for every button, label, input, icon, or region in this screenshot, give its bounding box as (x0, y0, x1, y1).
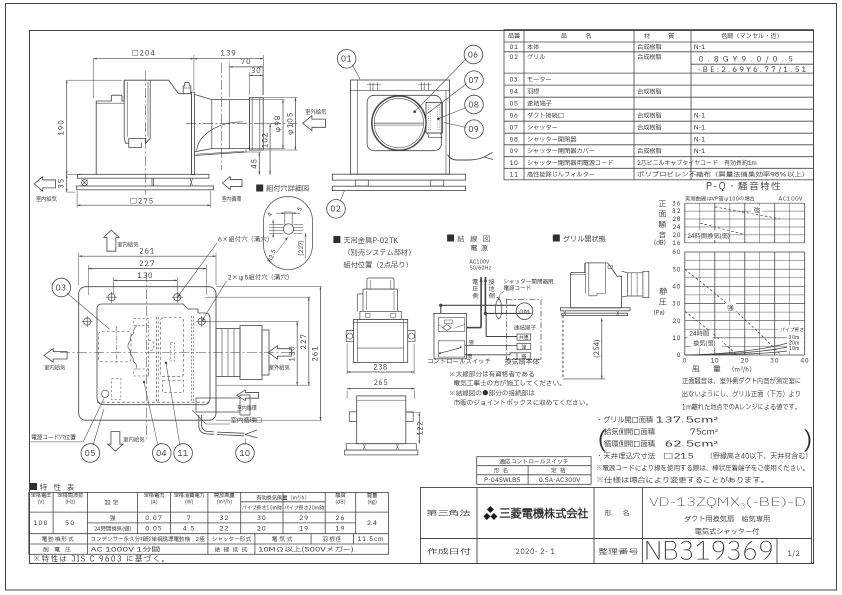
balloon 07 (465, 71, 484, 90)
svg-text:コントロールスイッチ: コントロールスイッチ (427, 356, 491, 366)
svg-text:GM: GM (519, 307, 530, 317)
svg-text:合成樹脂: 合成樹脂 (637, 123, 662, 133)
wiring terminal boxes (517, 334, 531, 340)
grill open bottom line (563, 378, 605, 380)
pq strong label (725, 303, 736, 312)
side view vertical centerline (144, 71, 146, 195)
svg-text:N-1: N-1 (694, 146, 705, 156)
svg-text:04: 04 (510, 86, 519, 96)
wiring cord loop ellipse (495, 299, 501, 318)
svg-text:10: 10 (239, 448, 250, 460)
svg-text:1/2: 1/2 (788, 549, 801, 559)
svg-text:30: 30 (769, 357, 779, 366)
grill open ceiling plate upper (561, 308, 630, 311)
svg-text:電気工事士の方が施工してください。: 電気工事士の方が施工してください。 (454, 379, 566, 389)
svg-text:(Pa): (Pa) (654, 309, 665, 318)
svg-text:(dB): (dB) (335, 498, 346, 506)
svg-text:102: 102 (260, 132, 271, 148)
bracket dim 238 (346, 344, 348, 375)
svg-text:AC100V: AC100V (778, 196, 803, 204)
svg-text:227: 227 (139, 259, 155, 270)
svg-text:(V): (V) (37, 498, 44, 506)
svg-text:30: 30 (671, 300, 681, 309)
svg-text:-BE:2.69Y6.77/1.51: -BE:2.69Y6.77/1.51 (697, 65, 808, 76)
svg-text:耐 電 圧: 耐 電 圧 (43, 546, 73, 554)
pq curve 24h (685, 311, 737, 355)
noise curve 24h (700, 223, 744, 234)
detail R2.5 label (277, 237, 288, 252)
svg-text:6×組付穴（溝穴）: 6×組付穴（溝穴） (218, 235, 273, 245)
dim 227 right (216, 384, 311, 386)
svg-text:10m: 10m (789, 345, 801, 353)
svg-text:電 源: 電 源 (470, 244, 489, 255)
front view grille plate (332, 186, 465, 190)
svg-text:室内給気: 室内給気 (117, 240, 139, 249)
noise chart grid (685, 203, 805, 243)
svg-text:(A): (A) (150, 498, 157, 506)
balloon 10 (236, 444, 255, 463)
svg-text:07: 07 (510, 123, 519, 133)
bracket base plates (346, 444, 416, 450)
wiring switch lower block (438, 341, 465, 357)
grill open body top edge (571, 274, 585, 276)
detail dim 4 (272, 220, 274, 239)
svg-text:07: 07 (468, 75, 479, 87)
bracket main box (354, 319, 408, 362)
wiring control switch box (434, 313, 467, 358)
svg-text:2×φ5組付穴（溝穴）: 2×φ5組付穴（溝穴） (228, 273, 294, 283)
svg-text:24時間換気(弱): 24時間換気(弱) (94, 525, 132, 534)
svg-text:実測曲線はVP管φ100の場合: 実測曲線はVP管φ100の場合 (685, 196, 755, 204)
top view cord hole circle (102, 390, 109, 397)
svg-text:室内循環: 室内循環 (222, 195, 242, 204)
svg-text:シャッター形式: シャッター形式 (212, 536, 252, 544)
svg-text:□215: □215 (663, 452, 694, 463)
svg-text:パイプ長さ10m時: パイプ長さ10m時 (242, 505, 282, 513)
noise curve strong (715, 207, 780, 219)
front view shutter opener box (426, 102, 442, 133)
side view body left top edge line (96, 102, 124, 104)
svg-text:組付穴詳細図: 組付穴詳細図 (266, 184, 309, 195)
svg-text:0.5A-AC300V: 0.5A-AC300V (539, 475, 580, 485)
svg-text:出ないようにし、グリル正面（下方）より: 出ないようにし、グリル正面（下方）より (682, 390, 801, 401)
top view fan scroll dashed (134, 319, 149, 326)
svg-text:30: 30 (251, 66, 262, 77)
side view body outline (96, 80, 191, 175)
top view left compartment dashed (99, 331, 131, 362)
pq curve strong (685, 270, 781, 356)
side view plate tick marks (151, 178, 153, 186)
dim 139 top (262, 55, 264, 95)
svg-text:09: 09 (510, 146, 519, 156)
grill open hanging grill dashed (561, 316, 563, 379)
svg-text:色調（マンセル・近）: 色調（マンセル・近） (721, 31, 783, 41)
svg-text:08: 08 (510, 134, 519, 144)
svg-text:01: 01 (510, 42, 519, 52)
svg-text:(W): (W) (185, 498, 194, 506)
grill open motor tower (584, 263, 586, 294)
svg-text:有効換気風量（m³/h）: 有効換気風量（m³/h） (256, 495, 309, 503)
svg-text:合成樹脂: 合成樹脂 (637, 86, 662, 96)
svg-text:(Hz): (Hz) (65, 498, 75, 506)
svg-text:□275: □275 (130, 197, 154, 208)
top view right compartment dashed (161, 318, 184, 377)
svg-text:品番: 品番 (508, 31, 521, 41)
svg-text:電気式: 電気式 (272, 535, 295, 544)
svg-text:(254): (254) (593, 340, 603, 358)
svg-text:室内循環口: 室内循環口 (231, 415, 263, 425)
dim 190 left (67, 79, 122, 81)
detail hatch plate lines (269, 224, 284, 226)
wiring switch upper block (438, 318, 465, 332)
svg-text:室外給気: 室外給気 (269, 364, 291, 373)
dim 204 top (92, 58, 94, 98)
svg-text:130: 130 (287, 345, 298, 361)
svg-text:16: 16 (672, 239, 681, 248)
detail slot (283, 224, 293, 234)
top view body outline (97, 304, 210, 405)
svg-text:室外給気: 室外給気 (305, 108, 327, 117)
svg-text:02: 02 (510, 52, 519, 62)
svg-text:(kg): (kg) (367, 498, 377, 506)
dim 130 right (202, 321, 299, 323)
svg-text:20: 20 (257, 524, 267, 534)
mounting hole detail oval (264, 196, 313, 269)
svg-text:シャッター開閉器カバー: シャッター開閉器カバー (527, 146, 595, 156)
svg-text:ポリプロピレン不織布（質量法捕集効率98％以上）: ポリプロピレン不織布（質量法捕集効率98％以上） (637, 169, 809, 179)
front view duct opening circle inner (374, 98, 423, 147)
wiring GM motor circle (516, 303, 533, 320)
bracket front view (367, 278, 394, 289)
svg-text:60: 60 (672, 248, 681, 257)
side view bell arc (197, 122, 243, 151)
svg-text:(m³/h): (m³/h) (217, 498, 233, 506)
svg-text:組付位置（2点吊り）: 組付位置（2点吊り） (343, 261, 412, 272)
front view ceiling plate (332, 174, 465, 180)
balloon 11 (174, 444, 193, 463)
dim 275 bottom (76, 191, 78, 208)
balloon 03 (52, 278, 71, 297)
svg-text:130: 130 (137, 271, 153, 282)
svg-text:シャッター: シャッター (527, 123, 558, 133)
side view ceiling plate upper (78, 174, 210, 178)
top view arrow circulation right (237, 390, 259, 401)
front view duct opening circle outer (372, 96, 426, 150)
svg-text:(227): (227) (297, 240, 306, 256)
balloon 09 (465, 120, 484, 139)
top view power cord (199, 415, 244, 436)
svg-text:10MΩ以上(500Vメガー): 10MΩ以上(500Vメガー) (258, 544, 354, 554)
side view motor tower (124, 80, 150, 143)
svg-text:電動機形式: 電動機形式 (42, 536, 75, 544)
svg-text:（m³/h）: （m³/h） (728, 365, 756, 375)
bracket mid taper (363, 289, 398, 311)
svg-text:11: 11 (178, 448, 189, 460)
svg-text:羽根径: 羽根径 (322, 536, 342, 544)
wiring switch to terminals (465, 344, 517, 346)
svg-text:01: 01 (341, 54, 352, 66)
svg-text:29: 29 (299, 513, 309, 523)
front view shutter line (374, 122, 423, 124)
svg-text:45: 45 (250, 158, 261, 169)
svg-text:75cm²: 75cm² (690, 428, 718, 439)
mitsubishi logo (483, 506, 497, 520)
pipe loss curve 20m (685, 343, 805, 356)
svg-text:35: 35 (57, 178, 68, 189)
top view vertical centerline (146, 272, 148, 440)
svg-text:2芯ビニルキャブタイヤコード 有効長約1m: 2芯ビニルキャブタイヤコード 有効長約1m (637, 158, 757, 168)
svg-text:32: 32 (219, 513, 229, 523)
svg-text:整理番号: 整理番号 (598, 547, 638, 558)
svg-text:強: 強 (754, 205, 761, 215)
svg-text:合成樹脂: 合成樹脂 (637, 52, 662, 62)
front view opener lower tab (428, 133, 442, 138)
side view pipe sections (228, 100, 230, 149)
svg-text:11.5cm: 11.5cm (357, 534, 384, 544)
svg-text:換気扇本体: 換気扇本体 (504, 357, 540, 368)
svg-text:50: 50 (65, 518, 75, 528)
top view small circulation port (163, 380, 184, 392)
dim 227 top (87, 265, 89, 295)
svg-text:N-1: N-1 (694, 42, 705, 52)
svg-text:パイプ長さ20m時: パイプ長さ20m時 (284, 505, 324, 513)
svg-text:122: 122 (415, 421, 425, 435)
svg-text:50/60Hz: 50/60Hz (469, 264, 492, 272)
svg-text:10: 10 (510, 158, 519, 168)
svg-text:03: 03 (56, 282, 67, 294)
svg-text:06: 06 (510, 111, 519, 121)
grill open section label (553, 235, 560, 242)
svg-text:φ98: φ98 (273, 115, 284, 134)
dim 130 top (113, 277, 115, 294)
bracket section label (333, 236, 340, 243)
svg-text:30: 30 (257, 513, 267, 523)
top view duct sections (216, 329, 240, 377)
balloon 04 (153, 444, 172, 463)
svg-text:モーター: モーター (527, 74, 552, 84)
dim 70 (228, 63, 230, 97)
wiring power lines (480, 277, 482, 328)
svg-text:強: 強 (521, 343, 526, 351)
svg-text:N-1: N-1 (694, 134, 705, 144)
bracket side view (357, 396, 406, 444)
svg-text:側: 側 (489, 292, 495, 301)
dim 30 (248, 72, 250, 95)
svg-text:市販のジョイントボックスに収めてください。: 市販のジョイントボックスに収めてください。 (454, 398, 592, 408)
svg-text:139: 139 (221, 49, 237, 60)
dim 261 top (78, 253, 80, 286)
svg-text:11: 11 (510, 169, 519, 179)
pipe loss curve 30m (685, 338, 805, 356)
svg-text:P-Q・騒音特性: P-Q・騒音特性 (706, 181, 783, 195)
grill open duct pipe (622, 271, 643, 297)
characteristics table label (30, 483, 37, 490)
bracket dim 122 (407, 412, 421, 414)
pipe loss curve 10m (685, 348, 805, 355)
svg-text:強: 強 (727, 303, 734, 313)
svg-text:（野縁高さ40以下、天井材含む）: （野縁高さ40以下、天井材含む） (706, 452, 812, 463)
front view connector rects (355, 180, 368, 186)
front view outer body (351, 80, 450, 174)
svg-text:品 名: 品 名 (561, 31, 598, 41)
svg-text:給気側開口面積: 給気側開口面積 (603, 428, 655, 439)
svg-text:24時間換気(弱): 24時間換気(弱) (687, 231, 730, 241)
svg-text:05: 05 (85, 448, 96, 460)
svg-text:238: 238 (373, 363, 387, 373)
svg-text:20: 20 (672, 317, 681, 326)
svg-text:天吊金具P-02TK: 天吊金具P-02TK (343, 236, 399, 247)
grill open ceiling plate lower (562, 313, 628, 315)
grill open plate screws (564, 311, 567, 316)
grill open dim 254 (601, 318, 603, 379)
svg-text:24時間: 24時間 (689, 329, 709, 339)
svg-text:室内給気: 室内給気 (123, 436, 145, 445)
svg-text:圧: 圧 (659, 297, 667, 309)
top view circulation duct lower (196, 398, 216, 412)
dim phi98 (249, 99, 285, 101)
svg-text:換気(弱): 換気(弱) (693, 339, 716, 349)
svg-text:コンデンサー永久分相形単相誘導電動機 2極: コンデンサー永久分相形単相誘導電動機 2極 (91, 535, 205, 544)
svg-text:材 質: 材 質 (644, 31, 681, 41)
top view arrow outdoor supply right (268, 346, 291, 360)
svg-text:電源コード: 電源コード (503, 285, 531, 293)
balloon 01 (337, 50, 356, 69)
svg-text:高性能除じんフィルター: 高性能除じんフィルター (527, 169, 595, 179)
svg-text:40: 40 (800, 357, 809, 366)
svg-text:NB319369: NB319369 (644, 533, 774, 571)
svg-text:室内給気: 室内給気 (36, 195, 58, 204)
svg-text:三菱電機株式会社: 三菱電機株式会社 (500, 507, 589, 524)
svg-text:03: 03 (510, 74, 519, 84)
svg-text:09: 09 (468, 124, 479, 136)
top view partition dashed (156, 317, 158, 402)
svg-text:AC 1000V 1分間: AC 1000V 1分間 (91, 544, 161, 554)
wiring section label (447, 235, 454, 242)
svg-text:0: 0 (683, 357, 687, 366)
svg-text:26: 26 (335, 513, 345, 523)
svg-text:227: 227 (299, 333, 310, 349)
svg-text:・天井埋込穴寸法: ・天井埋込穴寸法 (596, 452, 656, 463)
top view horizontal centerline (60, 352, 295, 354)
side view terminal bump (183, 82, 191, 93)
svg-text:シャッター開閉器用電源コード: シャッター開閉器用電源コード (527, 158, 614, 168)
dim 45 (246, 151, 261, 153)
svg-text:40: 40 (672, 282, 681, 291)
front view grille frame (367, 95, 441, 150)
svg-text:シャッター開閉器: シャッター開閉器 (527, 134, 577, 144)
detail dim 227 (305, 233, 307, 258)
front view cord (448, 155, 485, 161)
svg-text:10: 10 (672, 334, 681, 343)
svg-text:羽根: 羽根 (527, 86, 539, 96)
top view arrow indoor supply left (44, 349, 67, 363)
svg-text:19: 19 (335, 524, 345, 534)
svg-text:□204: □204 (132, 49, 156, 60)
grill open body (571, 263, 622, 308)
side view bell mouth (194, 94, 229, 151)
title block (421, 488, 812, 564)
wiring connections (439, 304, 442, 307)
grill open screw detail (608, 266, 613, 269)
side view pipe outer ring (249, 98, 263, 150)
pq 24h label (688, 330, 713, 339)
svg-text:0.07: 0.07 (145, 513, 163, 523)
side view duct lower fin (194, 149, 246, 155)
balloon 08 (465, 95, 484, 114)
svg-text:強: 強 (469, 339, 474, 347)
svg-text:強: 強 (109, 514, 115, 523)
svg-text:グリル開状態: グリル開状態 (563, 234, 606, 245)
svg-text:7: 7 (187, 513, 192, 523)
svg-text:0: 0 (677, 351, 681, 360)
svg-text:第三角法: 第三角法 (425, 509, 471, 520)
svg-text:形 名: 形 名 (605, 509, 632, 520)
balloon 06 (464, 45, 483, 64)
pipe length labels (778, 326, 804, 334)
svg-text:設定: 設定 (105, 499, 121, 508)
svg-text:本体: 本体 (527, 42, 539, 52)
svg-text:φ105: φ105 (286, 112, 297, 136)
svg-text:風 量: 風 量 (692, 365, 724, 376)
svg-text:※仕様は場合により変更することがあります。: ※仕様は場合により変更することがあります。 (596, 476, 769, 487)
wiring fan body box dash-dot (506, 299, 541, 359)
side view duct flange (192, 92, 195, 175)
parts table (504, 30, 814, 180)
svg-text:グリル: グリル (527, 52, 546, 62)
svg-text:100: 100 (33, 518, 48, 528)
dim 261 right (216, 286, 322, 288)
svg-text:08: 08 (468, 99, 479, 111)
side view plate screws (82, 180, 88, 186)
dim phi105 (263, 97, 297, 99)
top view inner dashed panel (97, 401, 209, 403)
svg-text:19: 19 (299, 524, 309, 534)
svg-text:合成樹脂: 合成樹脂 (637, 42, 662, 52)
front view top hanger slots (370, 82, 378, 90)
svg-text:側: 側 (472, 292, 478, 301)
bracket dim 265 (347, 388, 415, 390)
svg-text:適応コントロールスイッチ: 適応コントロールスイッチ (499, 457, 569, 466)
svg-text:ダクト接続口: ダクト接続口 (527, 111, 564, 121)
side view duct centerline vertical (220, 63, 222, 170)
svg-text:70: 70 (241, 57, 252, 68)
control switch table (477, 457, 591, 485)
svg-text:合成樹脂: 合成樹脂 (637, 111, 662, 121)
svg-text:循環側開口面積: 循環側開口面積 (604, 440, 655, 451)
svg-text:室内給気: 室内給気 (44, 364, 66, 373)
pq chart grid (685, 252, 805, 355)
svg-text:05: 05 (510, 99, 519, 109)
svg-text:正面騒音は、室外側ダクト内音が測定室に: 正面騒音は、室外側ダクト内音が測定室に (682, 377, 801, 388)
balloon 05 (81, 444, 100, 463)
bracket side tabs (346, 331, 353, 342)
svg-text:VD-13ZQMX: VD-13ZQMX (649, 495, 740, 512)
svg-text:265: 265 (374, 378, 388, 388)
arrow indoor circulation (222, 177, 242, 190)
svg-text:2020- 2- 1: 2020- 2- 1 (516, 547, 556, 557)
side view duct centerline horizontal (186, 123, 297, 125)
svg-text:絶 縁 抵 抗: 絶 縁 抵 抗 (215, 546, 249, 554)
svg-text:137.5cm²: 137.5cm² (656, 416, 718, 427)
svg-text:50: 50 (672, 265, 681, 274)
svg-text:1m離れた地点でのAレンジによる値です。: 1m離れた地点でのAレンジによる値です。 (682, 403, 801, 414)
svg-text:2.4: 2.4 (367, 518, 378, 528)
svg-text:共通: 共通 (518, 334, 529, 342)
svg-text:室内循環: 室内循環 (237, 404, 257, 413)
top view mounting holes (108, 294, 115, 301)
svg-text:62.5cm²: 62.5cm² (665, 440, 718, 451)
top view arrow indoor supply up (104, 230, 119, 251)
